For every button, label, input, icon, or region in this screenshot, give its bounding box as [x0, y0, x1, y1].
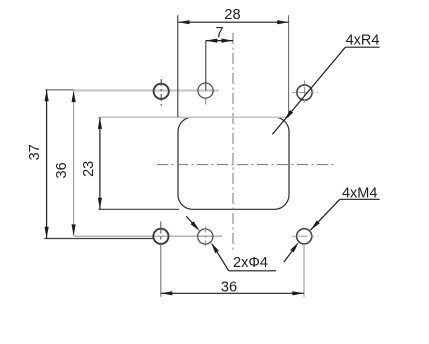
- gray extension line over cutout top edge: [98, 116, 288, 118]
- bottom flange line black: [44, 238, 154, 240]
- hole top-middle phi4: [198, 83, 213, 98]
- svg-text:37: 37: [27, 144, 43, 160]
- svg-text:4xM4: 4xM4: [342, 186, 377, 202]
- svg-text:36: 36: [54, 162, 70, 178]
- centerline vertical: [232, 33, 234, 251]
- leader 4xR4: [345, 46, 379, 48]
- dimension 7: [206, 40, 233, 42]
- extension to bottom dim through bottom-left hole: [160, 222, 162, 246]
- svg-text:7: 7: [215, 25, 223, 41]
- bottom hole centerline gray: [74, 235, 223, 237]
- hole bottom-middle phi4: [198, 229, 213, 244]
- hole top-right M4: [297, 85, 312, 100]
- top flange line gray through upper holes: [45, 89, 74, 91]
- rounded rectangle cutout 28x23 R4: [178, 117, 289, 209]
- extension line 23 bottom: [98, 208, 179, 210]
- dimension 28: [177, 15, 179, 117]
- hole bottom-right M4: [297, 229, 312, 244]
- svg-text:36: 36: [221, 279, 237, 295]
- svg-text:23: 23: [81, 161, 97, 177]
- hole bottom-left M4: [153, 229, 168, 244]
- leader 4xM4: [340, 198, 380, 200]
- dimension 23: [99, 117, 101, 209]
- leader 2xPhi4: [229, 270, 276, 272]
- centerline horizontal: [157, 164, 335, 166]
- leader arrow to bottom-right hole from 2xPhi4 side: [284, 251, 292, 262]
- svg-text:4xR4: 4xR4: [346, 32, 380, 48]
- svg-text:2xΦ4: 2xΦ4: [233, 255, 268, 271]
- dimension 36 bottom: [161, 292, 304, 294]
- dimension 36 left: [73, 91, 75, 236]
- hole top-left M4: [154, 84, 169, 99]
- dimension 37: [46, 90, 48, 239]
- extension below bottom-right hole: [303, 244, 305, 297]
- svg-text:28: 28: [224, 7, 240, 23]
